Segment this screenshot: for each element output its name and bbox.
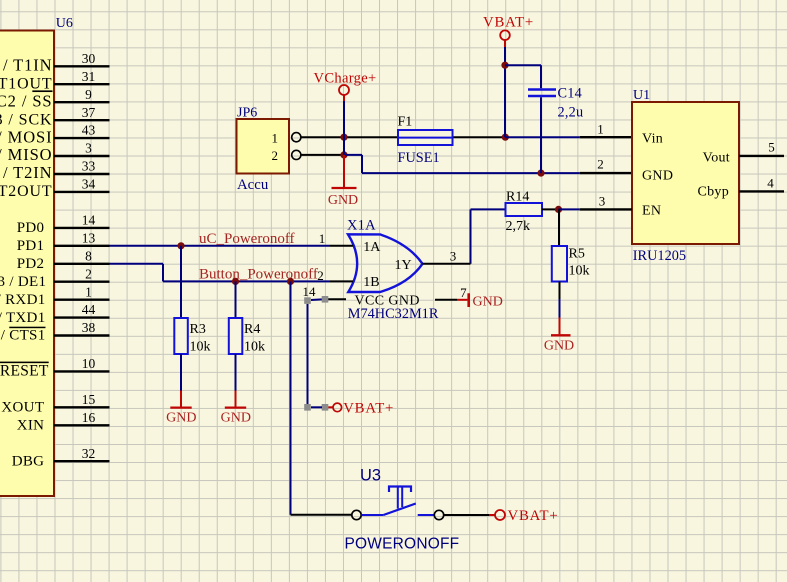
- svg-text:1: 1: [85, 284, 92, 299]
- svg-text:4: 4: [767, 176, 774, 191]
- svg-text:R3: R3: [190, 322, 206, 337]
- svg-text:X1A: X1A: [347, 217, 376, 233]
- svg-text:RESET: RESET: [0, 363, 49, 380]
- svg-text:T1OUT: T1OUT: [0, 75, 53, 92]
- svg-text:Button_Poweronoff: Button_Poweronoff: [199, 267, 318, 283]
- svg-text:GND: GND: [473, 295, 503, 310]
- svg-text:2: 2: [597, 157, 604, 172]
- svg-text:FUSE1: FUSE1: [398, 150, 440, 166]
- svg-text:15: 15: [82, 392, 96, 407]
- svg-text:GND: GND: [642, 169, 673, 184]
- svg-text:JP6: JP6: [237, 106, 257, 121]
- svg-text:10k: 10k: [190, 340, 211, 355]
- svg-text:3: 3: [85, 141, 92, 156]
- svg-text:/ T2IN: / T2IN: [3, 163, 53, 182]
- svg-text:F1: F1: [398, 115, 413, 130]
- svg-text:10k: 10k: [244, 340, 265, 355]
- svg-text:30: 30: [82, 51, 96, 66]
- svg-text:13: 13: [82, 230, 96, 245]
- svg-text:IRU1205: IRU1205: [633, 248, 686, 264]
- svg-text:VBAT+: VBAT+: [483, 15, 534, 31]
- svg-text:C14: C14: [558, 86, 582, 102]
- svg-text:3: 3: [450, 249, 457, 264]
- svg-text:34: 34: [82, 177, 96, 192]
- svg-text:GND: GND: [328, 193, 358, 208]
- svg-text:PD1: PD1: [17, 238, 45, 254]
- svg-text:37: 37: [82, 105, 96, 120]
- svg-text:R5: R5: [569, 247, 585, 262]
- svg-text:9: 9: [85, 87, 92, 102]
- svg-text:8: 8: [85, 248, 92, 263]
- svg-text:1A: 1A: [363, 240, 381, 255]
- svg-text:GND: GND: [544, 339, 574, 354]
- svg-text:16: 16: [82, 410, 96, 425]
- svg-text:Accu: Accu: [237, 177, 269, 193]
- svg-text:2: 2: [85, 266, 92, 281]
- svg-text:31: 31: [82, 69, 96, 84]
- svg-text:7: 7: [460, 285, 467, 300]
- svg-text:/ RXD1: / RXD1: [0, 292, 46, 308]
- svg-text:EN: EN: [642, 204, 661, 219]
- svg-text:VCharge+: VCharge+: [314, 71, 377, 87]
- svg-text:T2OUT: T2OUT: [0, 183, 53, 200]
- svg-text:1: 1: [271, 131, 278, 146]
- svg-text:14: 14: [82, 213, 96, 228]
- svg-text:3 / SCK: 3 / SCK: [0, 111, 53, 128]
- svg-text:14: 14: [303, 284, 317, 299]
- svg-text:1Y: 1Y: [395, 258, 412, 273]
- svg-text:/ CTS1: / CTS1: [1, 328, 46, 344]
- svg-text:GND: GND: [221, 410, 251, 425]
- svg-text:3 / DE1: 3 / DE1: [0, 274, 46, 290]
- svg-text:U3: U3: [360, 467, 381, 485]
- svg-text:PD0: PD0: [17, 220, 45, 236]
- svg-text:/ MOSI: / MOSI: [0, 127, 53, 146]
- svg-text:10: 10: [82, 356, 96, 371]
- svg-text:/ T1IN: / T1IN: [3, 56, 53, 75]
- svg-text:44: 44: [82, 302, 96, 317]
- svg-text:Cbyp: Cbyp: [697, 185, 729, 200]
- svg-text:5: 5: [768, 140, 775, 155]
- svg-text:/ MISO: / MISO: [0, 145, 53, 164]
- svg-text:/ TXD1: / TXD1: [0, 310, 46, 326]
- svg-text:PD2: PD2: [17, 256, 45, 272]
- svg-text:3: 3: [599, 194, 606, 209]
- svg-text:10k: 10k: [569, 264, 590, 279]
- svg-text:1: 1: [319, 231, 326, 246]
- svg-text:1B: 1B: [363, 275, 379, 290]
- svg-text:uC_Poweronoff: uC_Poweronoff: [199, 231, 295, 247]
- svg-text:1: 1: [597, 122, 604, 137]
- svg-text:U6: U6: [56, 16, 73, 31]
- svg-text:VBAT+: VBAT+: [343, 400, 394, 416]
- svg-text:GND: GND: [166, 410, 196, 425]
- svg-text:2,2u: 2,2u: [558, 105, 584, 121]
- svg-text:C2 / SS: C2 / SS: [0, 91, 53, 110]
- svg-text:38: 38: [82, 320, 96, 335]
- svg-text:43: 43: [82, 123, 96, 138]
- svg-text:XIN: XIN: [17, 418, 45, 434]
- svg-text:VBAT+: VBAT+: [508, 508, 559, 524]
- svg-text:POWERONOFF: POWERONOFF: [345, 536, 460, 553]
- svg-text:Vout: Vout: [703, 151, 730, 166]
- svg-text:R14: R14: [506, 190, 529, 205]
- svg-text:2,7k: 2,7k: [506, 219, 531, 234]
- svg-text:32: 32: [82, 446, 96, 461]
- svg-text:M74HC32M1R: M74HC32M1R: [348, 306, 439, 322]
- svg-text:33: 33: [82, 159, 96, 174]
- svg-text:U1: U1: [633, 88, 650, 103]
- svg-text:XOUT: XOUT: [1, 400, 44, 416]
- svg-text:Vin: Vin: [642, 132, 663, 147]
- svg-text:DBG: DBG: [12, 453, 45, 469]
- svg-text:2: 2: [271, 148, 278, 163]
- svg-text:R4: R4: [244, 322, 260, 337]
